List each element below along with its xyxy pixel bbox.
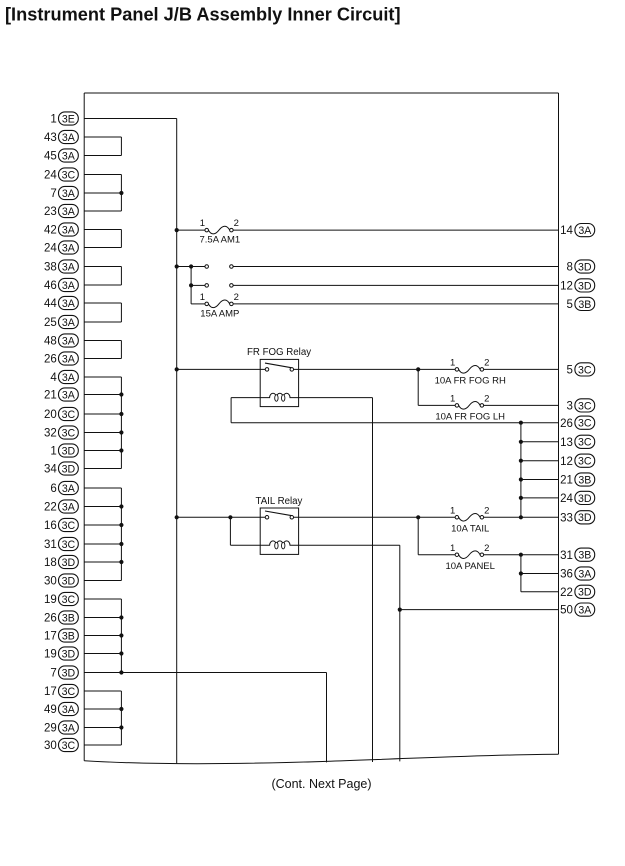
svg-text:3C: 3C <box>578 437 592 449</box>
left group 3 bracket <box>120 230 122 248</box>
svg-text:50: 50 <box>560 605 573 617</box>
svg-text:4: 4 <box>50 372 57 384</box>
svg-text:34: 34 <box>44 464 57 476</box>
terminal 22 (3A) left <box>44 500 78 514</box>
wire FR FOG RH to terminal 5 (3C) <box>484 368 559 370</box>
terminal 43 (3A) left <box>44 130 78 144</box>
terminal 29 (3A) left <box>44 721 78 735</box>
wire TAIL relay output <box>294 516 456 518</box>
wire row 21 (3B) stub <box>521 479 559 481</box>
terminal 1 (3D) left <box>50 444 78 458</box>
junction on left group 7 bracket <box>119 392 123 396</box>
terminal 12 (3D) right <box>560 279 595 293</box>
terminal 25 (3A) left <box>44 315 78 329</box>
svg-text:3D: 3D <box>578 512 592 524</box>
wire terminal 25 (3A) stub <box>84 321 121 323</box>
svg-text:(Cont. Next Page): (Cont. Next Page) <box>271 777 371 791</box>
wire FR FOG coil right drop to next page <box>372 398 374 762</box>
relay FR FOG box <box>260 359 298 406</box>
wire terminal 4 (3A) stub <box>84 376 121 378</box>
junction main bus <box>175 264 179 268</box>
svg-text:26: 26 <box>44 354 57 366</box>
svg-text:31: 31 <box>560 550 573 562</box>
svg-text:15A AMP: 15A AMP <box>200 309 239 320</box>
terminal 24 (3C) left <box>44 168 78 182</box>
svg-text:13: 13 <box>560 437 573 449</box>
junction right bus <box>519 496 523 500</box>
svg-text:3E: 3E <box>62 113 75 125</box>
junction on left group 9 bracket <box>119 633 123 637</box>
junction on left group 9 bracket <box>119 615 123 619</box>
terminal 5 (3C) right <box>566 363 594 377</box>
terminal 31 (3B) right <box>560 548 595 562</box>
wire terminal 19 (3C) stub <box>84 598 121 600</box>
svg-text:21: 21 <box>44 390 57 402</box>
left group 8 bracket <box>120 488 122 581</box>
svg-text:3C: 3C <box>578 456 592 468</box>
wire terminal 34 (3D) stub <box>84 468 121 470</box>
left group 5 bracket <box>120 303 122 322</box>
J/B assembly boundary (right border) <box>558 93 560 754</box>
junction row 50 (3A) <box>398 608 402 612</box>
svg-text:2: 2 <box>234 218 239 229</box>
wire main bus to FR FOG relay <box>177 368 266 370</box>
wire terminal 22 (3A) stub <box>84 506 121 508</box>
wire terminal 29 (3A) stub <box>84 727 121 729</box>
svg-text:8: 8 <box>566 262 572 274</box>
wire row 36 (3A) stub <box>521 573 559 575</box>
svg-text:3A: 3A <box>62 722 76 734</box>
svg-text:3A: 3A <box>62 261 76 273</box>
svg-text:3A: 3A <box>62 389 76 401</box>
svg-text:3B: 3B <box>578 550 591 562</box>
svg-text:1: 1 <box>450 505 455 516</box>
wire FR FOG LH feed <box>418 404 455 406</box>
svg-text:3C: 3C <box>578 418 592 430</box>
wire terminal 24 (3A) stub <box>84 247 121 249</box>
junction on left group 9 bracket <box>119 651 123 655</box>
fuse 15A AMP <box>205 300 233 308</box>
left group 6 bracket <box>120 341 122 359</box>
wire AMP feed <box>191 303 205 305</box>
svg-text:3D: 3D <box>578 280 592 292</box>
relay TAIL contact terminals <box>265 516 293 520</box>
terminal 26 (3B) left <box>44 611 78 625</box>
svg-text:3D: 3D <box>578 261 592 273</box>
svg-text:48: 48 <box>44 336 57 348</box>
terminal 6 (3A) left <box>50 481 78 495</box>
fuse 10A FR FOG LH <box>455 402 484 410</box>
left group 9 bracket <box>120 599 122 673</box>
wire TAIL fuse to terminal 33 (3D) <box>484 516 559 518</box>
svg-text:2: 2 <box>234 292 239 303</box>
svg-text:43: 43 <box>44 132 57 144</box>
wire FR FOG coil left drop <box>230 398 232 423</box>
svg-text:[Instrument Panel J/B Assembly: [Instrument Panel J/B Assembly Inner Cir… <box>5 5 401 25</box>
wire terminal 16 (3C) stub <box>84 524 121 526</box>
wire terminal 46 (3A) stub <box>84 284 121 286</box>
svg-text:3C: 3C <box>62 169 76 181</box>
terminal 17 (3C) left <box>44 684 78 698</box>
junction TAIL coil tap <box>228 515 232 519</box>
wire row 8 (3D) left segment <box>191 266 205 268</box>
terminal 45 (3A) left <box>44 149 78 163</box>
wire right bus lower <box>520 555 522 592</box>
svg-text:10A FR FOG RH: 10A FR FOG RH <box>435 376 506 387</box>
svg-text:22: 22 <box>44 502 57 514</box>
junction sub-bus row 8 <box>189 264 193 268</box>
wire terminal 21 (3A) stub <box>84 394 121 396</box>
wire terminal 24 (3C) stub <box>84 174 121 176</box>
junction on left group 2 bracket <box>119 191 123 195</box>
svg-text:3A: 3A <box>62 206 76 218</box>
wire terminal 1 (3D) stub <box>84 450 121 452</box>
terminal 24 (3A) left <box>44 241 78 255</box>
terminal 3 (3C) right <box>566 399 594 413</box>
wire PANEL branch vertical <box>417 517 419 554</box>
svg-text:26: 26 <box>560 418 573 430</box>
svg-text:3D: 3D <box>62 557 76 569</box>
wire row 13 (3C) stub <box>521 441 559 443</box>
svg-text:3D: 3D <box>578 493 592 505</box>
svg-text:1: 1 <box>200 218 205 229</box>
wire terminal 26 (3A) stub <box>84 358 121 360</box>
relay FR FOG contact terminals <box>265 368 293 372</box>
svg-text:29: 29 <box>44 723 57 735</box>
wire terminal 48 (3A) stub <box>84 340 121 342</box>
wire FR FOG LH to terminal 3 (3C) <box>484 404 559 406</box>
svg-text:12: 12 <box>560 456 573 468</box>
wire AMP output to terminal 5 (3B) <box>233 303 558 305</box>
svg-text:30: 30 <box>44 740 57 752</box>
svg-text:3B: 3B <box>578 474 591 486</box>
svg-text:3C: 3C <box>62 686 76 698</box>
wire terminal 30 (3D) stub <box>84 580 121 582</box>
svg-text:30: 30 <box>44 576 57 588</box>
svg-text:19: 19 <box>44 649 57 661</box>
junction right bus row 36 <box>519 571 523 575</box>
terminal 49 (3A) left <box>44 702 78 716</box>
terminal 33 (3D) right <box>560 511 595 525</box>
svg-text:3A: 3A <box>62 242 76 254</box>
terminal 20 (3C) left <box>44 407 78 421</box>
terminal 36 (3A) right <box>560 567 595 581</box>
svg-text:16: 16 <box>44 520 57 532</box>
svg-text:44: 44 <box>44 298 57 310</box>
wire terminal 44 (3A) stub <box>84 302 121 304</box>
svg-text:3D: 3D <box>62 463 76 475</box>
svg-text:3A: 3A <box>62 372 76 384</box>
wire row 12 (3D) to terminal <box>233 284 558 286</box>
wire row 24 (3D) stub <box>521 497 559 499</box>
svg-text:20: 20 <box>44 409 57 421</box>
terminal 24 (3D) right <box>560 491 595 505</box>
svg-text:7: 7 <box>50 668 56 680</box>
svg-text:17: 17 <box>44 686 57 698</box>
junction row 31 right bus <box>519 553 523 557</box>
svg-text:46: 46 <box>44 280 57 292</box>
terminal 38 (3A) left <box>44 260 78 274</box>
left group 7 bracket <box>120 377 122 469</box>
svg-text:3C: 3C <box>578 364 592 376</box>
svg-text:10A FR FOG LH: 10A FR FOG LH <box>435 412 505 423</box>
wire FR FOG relay output <box>294 368 456 370</box>
wire right bus upper <box>520 423 522 518</box>
svg-text:2: 2 <box>484 505 489 516</box>
svg-text:3A: 3A <box>62 280 76 292</box>
relay FR FOG coil <box>260 393 298 401</box>
svg-text:7.5A AM1: 7.5A AM1 <box>200 235 241 246</box>
svg-text:42: 42 <box>44 225 57 237</box>
junction row 26 right bus <box>519 421 523 425</box>
wire terminal 32 (3C) stub <box>84 432 121 434</box>
svg-text:36: 36 <box>560 569 573 581</box>
svg-text:3A: 3A <box>578 605 592 617</box>
wire FR FOG coil left lead <box>231 397 260 399</box>
terminal 7 (3A) left <box>50 186 78 200</box>
terminal 26 (3A) left <box>44 352 78 366</box>
svg-text:1: 1 <box>450 358 455 369</box>
junction on left group 10 bracket <box>119 707 123 711</box>
svg-text:3B: 3B <box>62 630 75 642</box>
terminal 26 (3C) right <box>560 416 595 430</box>
svg-text:2: 2 <box>484 394 489 405</box>
svg-text:3A: 3A <box>62 188 76 200</box>
fuse 10A FR FOG RH <box>455 366 484 374</box>
wire main bus to TAIL relay <box>177 516 266 518</box>
wire AM1 output to terminal 14 (3A) <box>233 229 558 231</box>
svg-text:18: 18 <box>44 557 57 569</box>
svg-text:3D: 3D <box>62 445 76 457</box>
svg-text:17: 17 <box>44 631 57 643</box>
svg-text:3C: 3C <box>62 520 76 532</box>
terminal 18 (3D) left <box>44 555 78 569</box>
svg-text:3D: 3D <box>62 667 76 679</box>
svg-text:10A PANEL: 10A PANEL <box>445 561 494 572</box>
svg-text:1: 1 <box>50 114 56 126</box>
wire TAIL coil left drop <box>229 517 231 545</box>
wire row 12 (3C) stub <box>521 460 559 462</box>
svg-text:3C: 3C <box>62 427 76 439</box>
svg-text:1: 1 <box>450 543 455 554</box>
wire terminal 19 (3D) stub <box>84 653 121 655</box>
left group 1 bracket <box>120 137 122 156</box>
svg-text:3C: 3C <box>62 740 76 752</box>
svg-text:38: 38 <box>44 262 57 274</box>
svg-text:6: 6 <box>50 483 56 495</box>
terminal 30 (3C) left <box>44 738 78 752</box>
junction sub-bus row 12 <box>189 283 193 287</box>
terminal 31 (3C) left <box>44 537 78 551</box>
wire row 50 (3A) <box>400 609 559 611</box>
svg-text:12: 12 <box>560 281 573 293</box>
connector pair row 8 (3D) <box>205 265 233 269</box>
junction right bus <box>519 440 523 444</box>
svg-text:3A: 3A <box>62 317 76 329</box>
wire TAIL coil left lead <box>230 544 260 546</box>
svg-text:3A: 3A <box>62 483 76 495</box>
junction main bus <box>175 228 179 232</box>
junction row 33 right bus <box>519 515 523 519</box>
wire terminal 17 (3B) stub <box>84 635 121 637</box>
wire main bus to sub-bus <box>177 266 191 268</box>
terminal 19 (3C) left <box>44 592 78 606</box>
svg-text:3A: 3A <box>62 501 76 513</box>
svg-text:22: 22 <box>560 587 573 599</box>
svg-text:24: 24 <box>44 243 57 255</box>
terminal 4 (3A) left <box>50 370 78 384</box>
wire PANEL fuse to terminal 31 (3B) <box>484 554 559 556</box>
relay FR FOG contact blade <box>265 363 291 368</box>
wire FR FOG LH branch vertical <box>417 369 419 405</box>
left group 10 bracket <box>120 691 122 745</box>
junction right bus <box>519 459 523 463</box>
svg-text:2: 2 <box>484 358 489 369</box>
relay TAIL contact blade <box>265 511 291 516</box>
junction on left group 9 bracket <box>119 670 123 674</box>
wire terminal 7 (3D) row <box>84 672 326 674</box>
J/B assembly boundary (bottom continuation edge) <box>84 754 558 764</box>
J/B assembly boundary (top border) <box>84 92 558 94</box>
terminal 21 (3A) left <box>44 388 78 402</box>
svg-text:26: 26 <box>44 613 57 625</box>
junction main bus <box>175 367 179 371</box>
svg-text:3A: 3A <box>578 568 592 580</box>
junction right bus <box>519 477 523 481</box>
svg-text:7: 7 <box>50 188 56 200</box>
svg-text:49: 49 <box>44 704 57 716</box>
wire terminal 23 (3A) stub <box>84 210 121 212</box>
svg-text:3A: 3A <box>62 353 76 365</box>
terminal 17 (3B) left <box>44 629 78 643</box>
svg-text:3A: 3A <box>62 335 76 347</box>
svg-text:3D: 3D <box>62 575 76 587</box>
svg-text:25: 25 <box>44 317 57 329</box>
left group 4 bracket <box>120 267 122 286</box>
junction on left group 8 bracket <box>119 523 123 527</box>
svg-text:3C: 3C <box>578 400 592 412</box>
fuse 10A TAIL <box>455 513 484 521</box>
terminal 12 (3C) right <box>560 454 595 468</box>
svg-text:3D: 3D <box>62 648 76 660</box>
wire TAIL coil right lead <box>299 544 400 546</box>
svg-text:5: 5 <box>566 299 572 311</box>
svg-text:1: 1 <box>50 446 56 458</box>
svg-text:1: 1 <box>450 394 455 405</box>
svg-text:31: 31 <box>44 539 57 551</box>
relay TAIL coil <box>260 541 298 549</box>
junction on left group 7 bracket <box>119 430 123 434</box>
svg-text:3A: 3A <box>62 224 76 236</box>
svg-text:3C: 3C <box>62 409 76 421</box>
svg-text:19: 19 <box>44 594 57 606</box>
svg-text:FR FOG Relay: FR FOG Relay <box>247 347 311 358</box>
svg-text:5: 5 <box>566 365 572 377</box>
wire row 22 (3D) stub <box>521 591 559 593</box>
svg-text:23: 23 <box>44 206 57 218</box>
svg-text:TAIL Relay: TAIL Relay <box>256 496 303 507</box>
wire sub-bus vertical <box>190 267 192 304</box>
svg-text:14: 14 <box>560 225 573 237</box>
terminal 32 (3C) left <box>44 426 78 440</box>
junction on left group 8 bracket <box>119 542 123 546</box>
svg-text:32: 32 <box>44 428 57 440</box>
terminal 34 (3D) left <box>44 462 78 476</box>
wire terminal 1 (3E) to main bus <box>84 118 177 120</box>
svg-text:3D: 3D <box>578 587 592 599</box>
terminal 21 (3B) right <box>560 473 595 487</box>
connector pair row 12 (3D) <box>205 284 233 288</box>
junction TAIL output <box>416 515 420 519</box>
junction on left group 7 bracket <box>119 412 123 416</box>
wire terminal 45 (3A) stub <box>84 155 121 157</box>
terminal 42 (3A) left <box>44 223 78 237</box>
wire terminal 6 (3A) stub <box>84 487 121 489</box>
wire terminal 42 (3A) stub <box>84 229 121 231</box>
junction on left group 7 bracket <box>119 448 123 452</box>
wire terminal 49 (3A) stub <box>84 708 121 710</box>
wire main bus vertical <box>176 119 178 764</box>
terminal 50 (3A) right <box>560 603 595 617</box>
terminal 46 (3A) left <box>44 278 78 292</box>
terminal 7 (3D) left <box>50 666 78 680</box>
terminal 5 (3B) right <box>566 297 594 311</box>
wire terminal 20 (3C) stub <box>84 413 121 415</box>
terminal 14 (3A) right <box>560 224 595 238</box>
terminal 23 (3A) left <box>44 204 78 218</box>
terminal 22 (3D) right <box>560 585 595 599</box>
fuse 10A PANEL <box>455 551 484 559</box>
terminal 19 (3D) left <box>44 647 78 661</box>
junction on left group 8 bracket <box>119 560 123 564</box>
terminal 8 (3D) right <box>566 260 594 274</box>
wire terminal 38 (3A) stub <box>84 266 121 268</box>
relay TAIL box <box>260 508 298 554</box>
junction on left group 8 bracket <box>119 504 123 508</box>
svg-text:3C: 3C <box>62 594 76 606</box>
svg-text:24: 24 <box>44 170 57 182</box>
wire terminal 7 (3D) drop to next page <box>326 673 328 763</box>
terminal 44 (3A) left <box>44 296 78 310</box>
svg-text:21: 21 <box>560 475 573 487</box>
wire terminal 26 (3B) stub <box>84 617 121 619</box>
svg-text:3A: 3A <box>62 704 76 716</box>
wire PANEL feed <box>418 554 455 556</box>
wire terminal 43 (3A) stub <box>84 136 121 138</box>
svg-text:3B: 3B <box>62 612 75 624</box>
terminal 30 (3D) left <box>44 574 78 588</box>
svg-text:3A: 3A <box>62 132 76 144</box>
wire terminal 17 (3C) stub <box>84 690 121 692</box>
junction FR FOG output <box>416 367 420 371</box>
svg-text:3A: 3A <box>62 298 76 310</box>
left group 2 bracket <box>120 175 122 212</box>
terminal 1 (3E) left <box>50 112 78 126</box>
wire terminal 18 (3D) stub <box>84 561 121 563</box>
svg-text:33: 33 <box>560 512 573 524</box>
terminal 16 (3C) left <box>44 518 78 532</box>
wire row 26 (3C) <box>231 422 558 424</box>
svg-text:1: 1 <box>200 292 205 303</box>
wire row 12 (3D) left segment <box>191 284 205 286</box>
svg-text:45: 45 <box>44 151 57 163</box>
svg-text:2: 2 <box>484 543 489 554</box>
J/B assembly boundary (left border) <box>83 93 85 761</box>
terminal 13 (3C) right <box>560 435 595 449</box>
wire terminal 7 (3A) stub <box>84 192 121 194</box>
svg-text:3B: 3B <box>578 299 591 311</box>
wire row 8 (3D) to terminal <box>233 266 558 268</box>
